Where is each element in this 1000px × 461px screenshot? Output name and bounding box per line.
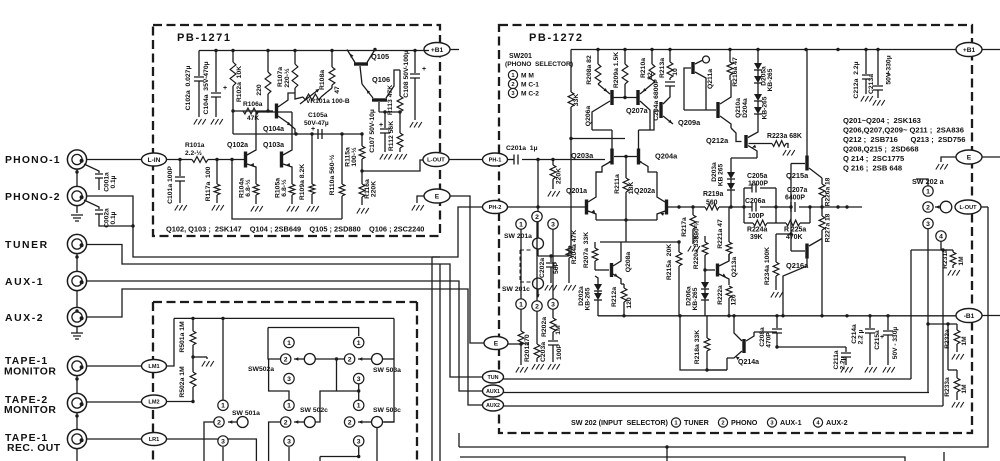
- svg-text:2.2 µ: 2.2 µ: [858, 329, 865, 344]
- transistor Q104a: [275, 104, 278, 119]
- transistor Q216a: [805, 244, 808, 259]
- wire lr1 feed: [167, 439, 257, 461]
- wire E ground stub: [941, 157, 956, 162]
- svg-text:SW 503a: SW 503a: [373, 367, 401, 374]
- wire Q106 collector: [386, 70, 400, 98]
- svg-text:M C-1: M C-1: [521, 82, 539, 89]
- wire emitter bus y134: [233, 133, 362, 135]
- resistor 220: [267, 51, 269, 73]
- wire +B1 down feed: [450, 49, 459, 51]
- svg-text:Q208a: Q208a: [625, 252, 632, 273]
- resistor R212a: [623, 284, 625, 288]
- svg-text:SW 502c: SW 502c: [300, 407, 328, 414]
- resistor R202a: [552, 310, 554, 319]
- svg-text:470P: 470P: [766, 332, 773, 348]
- resistor R108a: [331, 51, 333, 68]
- wire sw501 col: [222, 318, 224, 399]
- wire bottom bus 2: [458, 433, 460, 447]
- svg-text:R109a 8.2K: R109a 8.2K: [299, 164, 306, 200]
- wire q212-d203: [731, 157, 757, 159]
- main input line: [167, 159, 192, 161]
- svg-text:C205a: C205a: [747, 173, 767, 180]
- wire sw202 pin3 drop: [927, 229, 929, 393]
- transistor Q209a: [659, 102, 662, 118]
- resistor R232a: [956, 324, 958, 330]
- svg-text:R201a: R201a: [524, 342, 531, 362]
- selector SW202a pin3: [923, 218, 933, 228]
- wire aux drop b: [439, 264, 441, 461]
- svg-text:R224a: R224a: [747, 227, 767, 234]
- wire q208-d202: [595, 276, 598, 282]
- wire jack link tape1-tape2: [76, 376, 78, 394]
- svg-text:1: 1: [287, 403, 291, 410]
- jack TUNER: [67, 234, 86, 253]
- svg-text:470K: 470K: [786, 234, 802, 241]
- ground C202a: [545, 285, 557, 291]
- jack PHONO-2: [67, 186, 86, 205]
- svg-text:SW 501a: SW 501a: [232, 410, 260, 417]
- capacitor C202a: [550, 256, 552, 262]
- switch SW502a pin2: [281, 354, 291, 364]
- capacitor C208a: [754, 331, 777, 333]
- svg-text:SW502a: SW502a: [248, 366, 274, 373]
- svg-text:2: 2: [284, 356, 288, 363]
- wire q209 base: [650, 111, 659, 130]
- wire jack link tuner-aux1: [76, 254, 78, 272]
- svg-text:3: 3: [287, 376, 291, 383]
- svg-text:AUX-1: AUX-1: [780, 418, 802, 427]
- capacitor C211a: [845, 347, 847, 352]
- wire sw502c wiper up: [316, 391, 337, 422]
- svg-text:1800P: 1800P: [748, 181, 768, 188]
- svg-text:C207a: C207a: [787, 187, 807, 194]
- svg-text:R223a 68K: R223a 68K: [767, 133, 802, 140]
- svg-text:3: 3: [287, 438, 291, 445]
- ground R501a: [202, 361, 214, 367]
- wire bottom frame: [460, 457, 905, 461]
- svg-text:100P: 100P: [748, 213, 764, 220]
- svg-text:PHONO-2: PHONO-2: [5, 192, 61, 203]
- wire sw502c pin2 left: [269, 422, 280, 461]
- wire r233 link: [947, 324, 949, 370]
- selector SW202a pin4: [936, 231, 946, 241]
- capacitor C105a: [318, 129, 322, 139]
- wire lout return bus: [459, 207, 988, 447]
- wire TAPE-1 REC to LR1: [87, 438, 143, 440]
- wire feedback bottom: [232, 160, 342, 220]
- svg-text:4: 4: [939, 233, 943, 240]
- switch SW503c pin3: [354, 436, 364, 446]
- svg-text:Q204a: Q204a: [655, 152, 678, 161]
- transistor Q105: [354, 62, 368, 65]
- switch SW502c wiper: [304, 417, 315, 428]
- svg-text:R117a 100: R117a 100: [205, 166, 212, 201]
- wire L-OUT exit: [981, 206, 988, 208]
- svg-text:1: 1: [221, 403, 225, 410]
- ground C212a: [861, 96, 873, 102]
- ground below AUX-2: [71, 333, 83, 339]
- svg-text:39K: 39K: [750, 234, 763, 241]
- resistor 270: [518, 331, 524, 345]
- ground R117a: [212, 205, 224, 211]
- svg-text:R211a: R211a: [614, 174, 621, 194]
- svg-text:PB-1272: PB-1272: [529, 32, 584, 44]
- resistor R110a: [341, 134, 343, 184]
- wire q203 q204 mid: [614, 156, 637, 158]
- transistor Q215a: [805, 156, 808, 171]
- svg-text:SW 201c: SW 201c: [502, 286, 530, 293]
- svg-text:1M: 1M: [961, 336, 968, 346]
- wire lm2 feed: [167, 401, 194, 403]
- svg-text:Q 214 ; 2SC1775: Q 214 ; 2SC1775: [843, 154, 905, 163]
- wire q204 drain: [638, 130, 640, 149]
- svg-text:R208a 82: R208a 82: [586, 55, 593, 85]
- svg-text:3: 3: [926, 221, 930, 228]
- wire main out line: [810, 206, 862, 208]
- resistor R204a: [566, 246, 572, 258]
- svg-text:Q206,Q207,Q209~ Q211 ; 2SA836: Q206,Q207,Q209~ Q211 ; 2SA836: [843, 126, 964, 135]
- svg-text:R102a 10K: R102a 10K: [236, 66, 243, 102]
- resistor R233a: [956, 370, 958, 378]
- wire q214 base col: [733, 316, 735, 326]
- resistor R227a: [821, 207, 823, 216]
- resistor R216a: [729, 50, 731, 63]
- wire gate bus: [256, 111, 292, 113]
- svg-text:Q208,Q215 ; 2SD668: Q208,Q215 ; 2SD668: [843, 145, 919, 154]
- svg-text:3: 3: [221, 438, 225, 445]
- svg-text:3: 3: [357, 376, 361, 383]
- wire right riser: [384, 318, 394, 422]
- transistor Q213a: [716, 264, 719, 277]
- svg-text:MONITOR: MONITOR: [4, 367, 56, 378]
- svg-text:AUX-1: AUX-1: [5, 277, 44, 288]
- wire bottom exit: [666, 447, 668, 461]
- capacitor C108: [414, 51, 416, 74]
- wire base column: [790, 164, 792, 252]
- ground C203a: [548, 364, 560, 370]
- switch SW502c pin2: [281, 417, 291, 427]
- switch SW502a pin1: [284, 337, 294, 347]
- svg-text:2: 2: [217, 419, 221, 426]
- wire pin3 drops: [288, 447, 290, 461]
- svg-text:PH-2: PH-2: [489, 205, 502, 211]
- ground C101a: [175, 205, 187, 211]
- wire Q106 base drop: [378, 102, 380, 112]
- transistor Q203a: [610, 149, 613, 165]
- switch SW502c pin3: [284, 436, 294, 446]
- wire R102a down: [232, 111, 234, 134]
- svg-text:R110a 560-½: R110a 560-½: [328, 154, 336, 195]
- terminal L-OUT (PB-1272): [955, 200, 981, 214]
- jack AUX-1: [67, 271, 86, 290]
- transistor Q102a: [244, 152, 247, 168]
- ground R233a: [952, 402, 964, 408]
- wire n-bus: [268, 328, 359, 337]
- ground pin1: [516, 367, 528, 373]
- svg-text:6.8-½: 6.8-½: [244, 179, 252, 197]
- svg-text:220: 220: [256, 84, 263, 96]
- wire -B1 rail: [598, 315, 956, 317]
- svg-text:+: +: [379, 122, 383, 129]
- svg-text:Q209a: Q209a: [678, 118, 701, 127]
- svg-text:R101a: R101a: [185, 142, 205, 149]
- svg-text:6.8-½: 6.8-½: [280, 179, 288, 197]
- wire R115a to L-OUT: [362, 160, 423, 171]
- svg-text:PH-1: PH-1: [489, 158, 502, 164]
- resistor 33K input: [570, 50, 572, 93]
- svg-text:TUN: TUN: [487, 375, 498, 381]
- wire aux2 shield: [76, 327, 78, 334]
- svg-text:3: 3: [357, 438, 361, 445]
- svg-text:+: +: [223, 85, 227, 92]
- diode D206a: [701, 282, 709, 289]
- svg-text:SW201: SW201: [509, 53, 532, 60]
- capacitor C204a: [665, 82, 675, 86]
- wire jack link phono: [76, 169, 78, 187]
- resistor R113: [399, 70, 401, 96]
- wire tun line inside: [503, 378, 911, 380]
- wire r215 top: [626, 241, 679, 243]
- wire supply rail PB-1272: [571, 49, 956, 51]
- svg-text:Q206a: Q206a: [585, 106, 592, 127]
- switch SW503c pin2: [344, 417, 354, 427]
- svg-text:LR1: LR1: [149, 437, 160, 443]
- resistor R215a: [678, 242, 680, 252]
- svg-text:SW 202 (INPUT SELECTOR): SW 202 (INPUT SELECTOR): [571, 418, 669, 427]
- switch SW501a pin1: [218, 400, 228, 410]
- capacitor C207a: [791, 202, 795, 212]
- svg-text:Q201a: Q201a: [566, 188, 587, 195]
- capacitor C203a: [548, 341, 558, 345]
- wire E to pin1: [508, 343, 521, 345]
- capacitor C101a: [179, 160, 181, 177]
- ground C214a: [865, 367, 877, 373]
- ground below PHONO-2: [71, 215, 83, 221]
- svg-text:220-½: 220-½: [283, 68, 291, 88]
- terminal +B1 (PB-1271): [424, 43, 450, 57]
- svg-text:Q214a: Q214a: [738, 359, 759, 366]
- wire PH-1 line: [508, 159, 515, 161]
- svg-text:Q213a: Q213a: [731, 257, 738, 278]
- switch SW201c arrow: [537, 289, 539, 297]
- ground R231a: [948, 270, 960, 276]
- wire center drop: [337, 359, 359, 391]
- svg-text:Q211a: Q211a: [707, 69, 714, 89]
- svg-text:TAPE-1: TAPE-1: [5, 356, 48, 367]
- svg-text:D204a: D204a: [742, 98, 749, 118]
- switch SW503a pin2: [344, 354, 354, 364]
- svg-text:Q212a: Q212a: [706, 136, 729, 145]
- svg-text:120: 120: [731, 294, 738, 305]
- wire PHONO-1 to L-IN: [87, 159, 142, 161]
- wire sw202 pin1 feed: [916, 179, 928, 186]
- transistor Q206a: [610, 90, 613, 105]
- resistor R219a: [700, 206, 705, 208]
- svg-text:82: 82: [647, 72, 654, 80]
- svg-text:C213a: C213a: [868, 74, 875, 94]
- svg-text:R226a 18: R226a 18: [825, 177, 832, 206]
- ground R109a: [307, 206, 319, 212]
- svg-text:R215a 20K: R215a 20K: [666, 244, 673, 280]
- ground E right: [936, 164, 948, 170]
- svg-text:2.2µ: 2.2µ: [840, 356, 847, 369]
- svg-text:1M: 1M: [958, 256, 965, 266]
- svg-text:R227a 18: R227a 18: [825, 213, 832, 242]
- wire AUX-2 bus: [87, 289, 484, 405]
- capacitor C206a: [744, 206, 752, 208]
- svg-text:2: 2: [721, 421, 724, 427]
- svg-text:VR101a 100-B: VR101a 100-B: [306, 98, 350, 105]
- resistor R234a: [775, 234, 777, 262]
- svg-text:1: 1: [926, 188, 930, 195]
- transistor Q210a: [716, 102, 719, 118]
- svg-text:1: 1: [519, 221, 523, 228]
- svg-text:R108a: R108a: [319, 70, 326, 90]
- svg-text:L-IN: L-IN: [148, 157, 161, 164]
- svg-text:Q212 ; 2SB716 Q213 ; 2S: Q212 ; 2SB716 Q213 ; 2SD756: [843, 135, 965, 144]
- diode D204a: [754, 94, 762, 101]
- terminal PH-1: [483, 153, 508, 166]
- wire L-OUT to PH-1: [449, 159, 483, 161]
- svg-text:1: 1: [519, 301, 523, 308]
- jack PHONO-1: [67, 150, 86, 169]
- resistor R101a: [192, 157, 208, 163]
- wire q202 out: [668, 206, 700, 208]
- capacitor C201a: [514, 155, 518, 165]
- diode D205a: [757, 50, 759, 64]
- wire q213 base: [705, 269, 715, 271]
- wire jack link aux1-aux2: [76, 291, 78, 308]
- wire q206 q207 link: [614, 97, 637, 99]
- svg-text:+: +: [422, 66, 426, 73]
- board outline PB-1272: [499, 25, 972, 433]
- ground C102a: [194, 119, 206, 125]
- wire q214 collector: [746, 332, 754, 341]
- svg-text:3: 3: [551, 301, 555, 308]
- svg-text:KB-265: KB-265: [585, 287, 592, 310]
- resistor R209a: [624, 50, 626, 65]
- terminal L-IN: [142, 153, 167, 166]
- svg-text:MONITOR: MONITOR: [4, 405, 56, 416]
- ground R217a: [688, 246, 700, 252]
- svg-text:C102a 0.027µ: C102a 0.027µ: [185, 66, 192, 111]
- svg-text:R 225a: R 225a: [784, 227, 806, 234]
- ground E: [412, 205, 424, 211]
- svg-text:2.2-½: 2.2-½: [185, 149, 202, 157]
- transistor Q103a: [280, 152, 283, 168]
- wire +B1 exit: [982, 49, 1000, 51]
- svg-text:R112 56K: R112 56K: [388, 121, 395, 151]
- svg-text:0.1µ: 0.1µ: [110, 211, 117, 224]
- svg-text:KB-265: KB-265: [692, 287, 699, 310]
- svg-text:2: 2: [348, 419, 352, 426]
- ground R104a: [251, 206, 263, 212]
- svg-text:100-½: 100-½: [350, 147, 358, 167]
- ground R204a: [564, 285, 576, 291]
- ground R105a: [287, 206, 299, 212]
- wire sw201 pin wires: [520, 229, 522, 299]
- svg-text:R202a: R202a: [541, 317, 548, 337]
- wire r209 drop: [624, 84, 626, 98]
- svg-text:E: E: [967, 154, 972, 161]
- selector SW202a pin2: [923, 202, 933, 212]
- terminal E (PB-1272 right): [956, 150, 982, 164]
- svg-text:C206a: C206a: [745, 198, 765, 205]
- svg-text:1M: 1M: [555, 325, 562, 335]
- svg-text:1M: 1M: [961, 384, 968, 394]
- wire lm1 feed: [167, 318, 175, 366]
- svg-text:220K: 220K: [556, 168, 563, 184]
- svg-text:Q202a: Q202a: [634, 188, 655, 195]
- capacitor C212a: [865, 50, 867, 75]
- svg-text:C203a: C203a: [540, 342, 547, 362]
- svg-text:R213a: R213a: [659, 58, 666, 78]
- svg-text:R113 47K: R113 47K: [387, 85, 394, 115]
- resistor R105a: [291, 171, 293, 184]
- wire q212 base: [731, 128, 742, 142]
- wire R108a to VR101a: [327, 88, 332, 92]
- capacitor C001a: [84, 164, 99, 173]
- ground R201a: [532, 364, 544, 370]
- wire aux2 line inside: [503, 405, 943, 407]
- svg-text:R233a: R233a: [944, 377, 951, 397]
- svg-text:10: 10: [672, 68, 679, 76]
- resistor R231a: [952, 250, 954, 252]
- svg-text:Q201~Q204 ; 2SK163: Q201~Q204 ; 2SK163: [843, 116, 921, 125]
- wire wiper row: [315, 358, 344, 360]
- ground C211a: [841, 367, 853, 373]
- svg-text:TUNER: TUNER: [684, 418, 710, 427]
- svg-text:KB 265: KB 265: [718, 163, 725, 186]
- svg-text:LM2: LM2: [148, 400, 159, 406]
- svg-text:L-OUT: L-OUT: [427, 158, 445, 164]
- svg-text:M M: M M: [521, 73, 534, 80]
- capacitor C215a: [887, 316, 889, 330]
- wire sw201 row: [537, 249, 539, 256]
- wire +B1 to rail: [424, 50, 429, 52]
- wire aux2 up: [942, 250, 944, 406]
- switch SW502a wiper: [304, 354, 315, 365]
- transistor Q201a: [585, 200, 588, 215]
- wire sw501a pin2 left: [204, 422, 214, 461]
- jack TAPE-2 MONITOR: [67, 393, 86, 412]
- resistor R210a: [651, 50, 653, 65]
- wire q210 base: [684, 109, 716, 111]
- svg-text:Q203a: Q203a: [571, 151, 594, 160]
- terminal E (PB-1272 left): [484, 337, 508, 350]
- svg-text:Q216a: Q216a: [786, 261, 809, 270]
- svg-text:KB-265: KB-265: [767, 68, 774, 91]
- ground C107: [380, 154, 392, 160]
- wire sw201a drop: [537, 160, 539, 238]
- capacitor C214a: [869, 316, 871, 328]
- svg-text:Q102, Q103 ; 2SK147 Q104 ;: Q102, Q103 ; 2SK147 Q104 ; 2SB649 Q105 ;…: [166, 225, 424, 234]
- svg-text:Q104a: Q104a: [263, 126, 284, 133]
- svg-text:REC. OUT: REC. OUT: [7, 443, 61, 454]
- capacitor C102a: [198, 51, 200, 77]
- svg-text:47K: 47K: [247, 115, 259, 122]
- jack AUX-2: [67, 307, 86, 326]
- capacitor C107: [384, 112, 386, 128]
- wire -b1 node column: [926, 322, 929, 325]
- svg-text:1: 1: [357, 403, 361, 410]
- transistor Q211a: [691, 62, 694, 74]
- terminal LM1: [142, 360, 167, 373]
- switch SW503c wiper: [372, 417, 383, 428]
- svg-text:C202a: C202a: [539, 258, 546, 278]
- svg-text:Q105: Q105: [371, 52, 389, 61]
- svg-text:47: 47: [334, 86, 341, 94]
